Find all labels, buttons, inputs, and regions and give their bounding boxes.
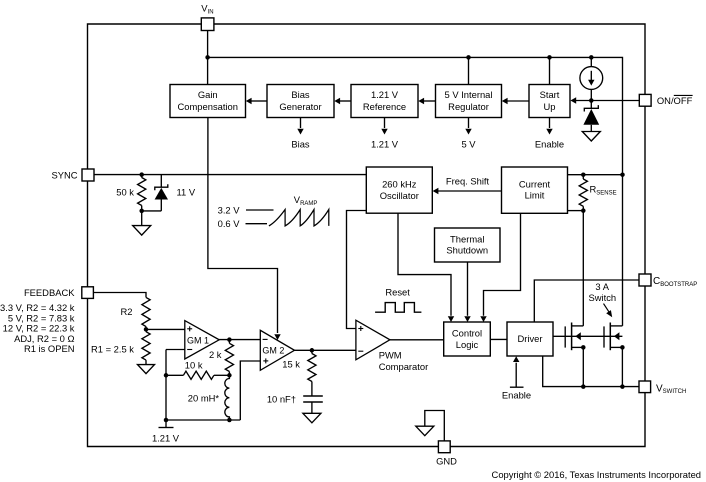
wire Driver to VSWITCH bbox=[543, 356, 640, 387]
node VIN bus junction bbox=[205, 55, 210, 60]
block Control Logic bbox=[444, 322, 491, 356]
svg-text:Current: Current bbox=[519, 179, 551, 190]
node bus to 5V regulator bbox=[466, 55, 471, 60]
svg-text:Start: Start bbox=[540, 89, 560, 100]
svg-text:Bias: Bias bbox=[291, 138, 310, 149]
wire GND hook bbox=[425, 411, 445, 442]
wire GM2 output to PWM bbox=[295, 349, 356, 351]
svg-text:Gain: Gain bbox=[198, 89, 218, 100]
inductor 20 mH bbox=[225, 375, 230, 420]
node RSENSE top bbox=[581, 172, 586, 177]
svg-text:Shutdown: Shutdown bbox=[446, 245, 488, 256]
svg-text:GM 2: GM 2 bbox=[262, 345, 284, 355]
svg-text:SYNC: SYNC bbox=[51, 169, 77, 180]
pin ON/OFF bbox=[639, 94, 651, 106]
wire bus to Start Up top bbox=[549, 57, 551, 84]
node 10k left bbox=[164, 373, 169, 378]
block Driver bbox=[507, 322, 553, 356]
svg-text:Regulator: Regulator bbox=[448, 101, 489, 112]
arrow 5 V output bbox=[465, 118, 471, 135]
ground (10 nF) bbox=[303, 413, 321, 423]
svg-text:5 V: 5 V bbox=[461, 138, 476, 149]
wire VIN to Gain Compensation top bbox=[207, 31, 209, 85]
enable arrow (driver) bbox=[510, 356, 524, 387]
wire Control Logic to Driver bbox=[490, 338, 507, 340]
svg-text:Reference: Reference bbox=[363, 101, 406, 112]
wire bus to 5V regulator top bbox=[468, 57, 470, 84]
label 3 A Switch bbox=[588, 281, 616, 303]
waveform Reset bbox=[375, 303, 421, 313]
resistor 50 k bbox=[138, 175, 146, 211]
wire rail to GM2 + bbox=[240, 361, 260, 420]
svg-text:R2: R2 bbox=[121, 306, 133, 317]
wire divider to GM1 + bbox=[146, 328, 185, 330]
pin SYNC bbox=[82, 169, 94, 181]
svg-text:Generator: Generator bbox=[279, 101, 321, 112]
svg-text:2 k: 2 k bbox=[209, 349, 222, 360]
arrow Enable output bbox=[546, 118, 552, 135]
wire ON/OFF to Start Up bbox=[570, 97, 639, 103]
pin FEEDBACK bbox=[82, 287, 94, 299]
wire Current Limit to RSENSE bottom bbox=[568, 210, 584, 212]
svg-text:Oscillator: Oscillator bbox=[380, 190, 419, 201]
node feedback divider bbox=[144, 327, 149, 332]
table feedback options bbox=[0, 302, 75, 354]
node VSWITCH Q2 bbox=[620, 384, 625, 389]
node ON/OFF clamp junction bbox=[589, 98, 594, 103]
block Bias Generator bbox=[267, 85, 334, 118]
svg-text:Control: Control bbox=[452, 327, 482, 338]
node 50k zener junction bbox=[139, 209, 144, 214]
svg-text:Up: Up bbox=[544, 101, 556, 112]
wire SYNC to oscillator bbox=[94, 174, 366, 176]
resistor 2 k bbox=[225, 340, 233, 376]
svg-text:11 V: 11 V bbox=[177, 186, 196, 197]
node RSENSE bus bbox=[620, 172, 625, 177]
level line 0.6 V bbox=[246, 223, 268, 225]
block Current Limit bbox=[502, 167, 568, 213]
op-amp GM2 bbox=[260, 330, 294, 370]
wire Driver to switch gates bbox=[553, 335, 622, 337]
svg-text:260 kHz: 260 kHz bbox=[382, 178, 417, 189]
level line 3.2 V bbox=[246, 209, 274, 211]
transistor Q1 (switch FET) bbox=[565, 323, 583, 351]
block 1.21 V Reference bbox=[351, 85, 418, 118]
node bus to Start Up bbox=[547, 55, 552, 60]
svg-text:Copyright © 2016, Texas Instru: Copyright © 2016, Texas Instruments Inco… bbox=[492, 469, 701, 480]
zener D2 ON/OFF clamp bbox=[583, 101, 599, 132]
pointer arrow 3A switch bbox=[604, 304, 613, 318]
IC boundary bbox=[88, 24, 646, 447]
svg-text:Comparator: Comparator bbox=[379, 361, 429, 372]
svg-text:FEEDBACK: FEEDBACK bbox=[24, 287, 75, 298]
waveform VRAMP sawtooth bbox=[269, 210, 329, 226]
svg-text:R1 is OPEN: R1 is OPEN bbox=[24, 343, 75, 354]
svg-text:GND: GND bbox=[436, 456, 457, 467]
svg-text:3 A: 3 A bbox=[595, 281, 609, 292]
resistor R1 bbox=[142, 329, 150, 364]
svg-text:PWM: PWM bbox=[379, 350, 402, 361]
node GM1 output bbox=[227, 337, 232, 342]
svg-text:Bias: Bias bbox=[291, 89, 310, 100]
wire FEEDBACK to R2 bbox=[93, 293, 146, 298]
svg-text:3.2 V: 3.2 V bbox=[218, 205, 241, 216]
svg-text:1.21 V: 1.21 V bbox=[152, 432, 180, 443]
wire PWM to Control Logic bbox=[390, 339, 444, 341]
wire Bias Generator to Gain Compensation bbox=[246, 98, 267, 104]
node 10k right bbox=[227, 373, 232, 378]
arrow Bias output bbox=[297, 118, 303, 135]
ground (ON/OFF clamp) bbox=[582, 132, 600, 142]
pin VSWITCH bbox=[639, 381, 651, 393]
ground (SYNC divider) bbox=[133, 211, 151, 235]
svg-text:Freq. Shift: Freq. Shift bbox=[446, 175, 490, 186]
svg-text:20 mH*: 20 mH* bbox=[188, 393, 220, 404]
wire VIN bus bbox=[208, 57, 623, 326]
wire Current Limit to Control Logic bbox=[480, 213, 520, 322]
node GM2 output bbox=[310, 348, 315, 353]
svg-text:Switch: Switch bbox=[588, 292, 616, 303]
wire Gain Compensation to GM2 bbox=[208, 118, 281, 341]
svg-text:1.21 V: 1.21 V bbox=[371, 138, 399, 149]
ground (R1) bbox=[138, 365, 155, 374]
wire oscillator ramp to PWM comparator bbox=[347, 211, 367, 329]
svg-text:Logic: Logic bbox=[456, 339, 479, 350]
svg-text:Driver: Driver bbox=[518, 333, 543, 344]
wire oscillator to Control Logic bbox=[398, 213, 454, 322]
svg-text:GM 1: GM 1 bbox=[187, 336, 209, 346]
block Start Up bbox=[529, 85, 570, 118]
op-amp GM1 bbox=[185, 321, 219, 359]
node VSWITCH Q1 bbox=[581, 384, 586, 389]
resistor RSENSE bbox=[579, 175, 587, 211]
wire Reference to Bias Generator bbox=[334, 98, 351, 104]
svg-text:ON/OFF: ON/OFF bbox=[657, 95, 693, 106]
node rail inductor bbox=[227, 418, 232, 423]
node SYNC 50k junction bbox=[139, 172, 144, 177]
block Gain Compensation bbox=[170, 85, 246, 118]
pin CBOOTSTRAP bbox=[639, 274, 651, 286]
pin GND bbox=[438, 441, 450, 453]
node Q1 source bbox=[581, 345, 586, 350]
transistor Q2 (bootstrap FET) bbox=[604, 323, 622, 351]
svg-text:10 k: 10 k bbox=[185, 359, 203, 370]
svg-text:Enable: Enable bbox=[502, 389, 531, 400]
svg-text:R1 = 2.5 k: R1 = 2.5 k bbox=[91, 344, 134, 355]
svg-text:Limit: Limit bbox=[525, 190, 545, 201]
node RSENSE bottom bbox=[581, 208, 586, 213]
terminal 1.21 V bbox=[159, 420, 174, 428]
wire Start Up to Regulator bbox=[502, 98, 529, 104]
wire Freq. Shift arrow bbox=[433, 188, 502, 194]
node bus to current source bbox=[589, 55, 594, 60]
wire Thermal Shutdown to Control Logic bbox=[464, 262, 470, 322]
resistor 15 k bbox=[308, 350, 316, 396]
block 260 kHz Oscillator bbox=[366, 167, 432, 213]
ground (GND pin) bbox=[416, 426, 434, 436]
wire Regulator to Reference bbox=[418, 98, 435, 104]
wire CBOOTSTRAP to Driver top bbox=[534, 280, 639, 322]
wire Current Limit to RSENSE top bbox=[568, 174, 623, 176]
svg-text:Thermal: Thermal bbox=[450, 234, 484, 245]
resistor 10 k rail bbox=[166, 371, 229, 379]
svg-text:0.6 V: 0.6 V bbox=[218, 218, 241, 229]
block Thermal Shutdown bbox=[435, 228, 501, 262]
node rail left bbox=[164, 418, 169, 423]
comparator PWM bbox=[356, 320, 390, 360]
wire GM1 - input loop bbox=[166, 350, 185, 421]
svg-text:50 k: 50 k bbox=[116, 186, 134, 197]
svg-text:Enable: Enable bbox=[535, 138, 564, 149]
zener D1 11 V bbox=[142, 175, 168, 211]
arrow 1.21 V output bbox=[381, 118, 387, 135]
current source I1 bbox=[580, 57, 603, 100]
label PWM Comparator bbox=[379, 350, 429, 372]
capacitor 10 nF bbox=[303, 396, 323, 413]
wire Q2 source to VSWITCH bbox=[621, 347, 623, 386]
svg-text:5 V Internal: 5 V Internal bbox=[445, 89, 493, 100]
svg-text:15 k: 15 k bbox=[282, 359, 300, 370]
wire GM1 output to GM2 bbox=[219, 339, 260, 341]
wire Q1 source to VSWITCH bbox=[582, 347, 584, 386]
svg-text:1.21 V: 1.21 V bbox=[371, 89, 399, 100]
pin VIN bbox=[201, 18, 214, 31]
label ON/OFF bbox=[657, 95, 693, 106]
wire 1.21V rail bbox=[166, 419, 240, 421]
svg-text:Reset: Reset bbox=[385, 286, 410, 297]
wire RSENSE to switch drain bbox=[582, 211, 584, 326]
node Q2 source bbox=[620, 345, 625, 350]
svg-text:Compensation: Compensation bbox=[178, 101, 238, 112]
block 5 V Internal Regulator bbox=[436, 85, 502, 118]
resistor R2 bbox=[142, 297, 150, 329]
svg-text:10 nF†: 10 nF† bbox=[267, 394, 296, 405]
